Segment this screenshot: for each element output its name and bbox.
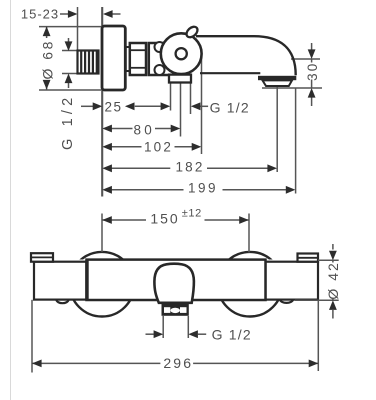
svg-text:Ø 68: Ø 68 (39, 39, 55, 79)
svg-text:199: 199 (188, 180, 218, 195)
svg-text:G 1/2: G 1/2 (210, 99, 250, 115)
svg-text:102: 102 (144, 140, 173, 155)
svg-text:±12: ±12 (182, 208, 202, 220)
svg-text:G 1/2: G 1/2 (212, 326, 252, 342)
svg-text:150: 150 (150, 210, 179, 226)
svg-text:30: 30 (305, 62, 320, 81)
svg-text:25: 25 (104, 100, 122, 115)
svg-text:G 1/2: G 1/2 (60, 94, 76, 150)
svg-text:80: 80 (133, 122, 154, 137)
svg-text:15-23: 15-23 (21, 6, 59, 21)
svg-text:182: 182 (175, 159, 204, 174)
svg-text:296: 296 (163, 355, 193, 371)
svg-text:Ø 42: Ø 42 (325, 261, 341, 299)
